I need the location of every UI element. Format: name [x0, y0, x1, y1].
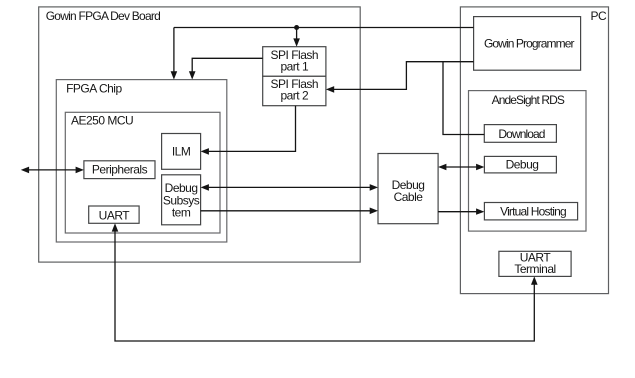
wire UART to UART Terminal (bidirectional)	[112, 223, 538, 341]
wire SPI Flash part 2 to ILM	[201, 106, 296, 155]
wire SPI Flash part 1 to FPGA Chip	[189, 58, 263, 79]
box Debug	[484, 156, 556, 173]
svg-text:UART: UART	[99, 209, 131, 223]
box FPGA Chip	[56, 80, 227, 242]
svg-text:tem: tem	[172, 205, 191, 219]
box SPI Flash part 1	[263, 47, 326, 77]
svg-text:Download: Download	[498, 127, 544, 141]
box Gowin Programmer	[474, 17, 581, 71]
wire Debug Subsystem to Debug Cable (bidirectional)	[201, 184, 378, 191]
svg-text:part 2: part 2	[280, 89, 309, 103]
box UART Terminal	[499, 250, 571, 276]
wire Debug Cable to Debug (bidirectional)	[438, 164, 484, 171]
box ILM	[162, 134, 201, 170]
box Peripherals	[84, 161, 155, 179]
svg-text:Cable: Cable	[394, 190, 424, 204]
svg-text:AE250 MCU: AE250 MCU	[71, 114, 133, 128]
box SPI Flash part 2	[263, 76, 326, 105]
box Download	[484, 125, 556, 143]
svg-text:Terminal: Terminal	[514, 262, 555, 276]
junction dot on top bus	[294, 25, 299, 30]
svg-text:Peripherals: Peripherals	[92, 163, 148, 177]
box AE250 MCU	[65, 112, 220, 233]
wire junction down into SPI Flash part 1	[293, 28, 300, 47]
wire Debug Subsystem to Debug Cable (lower)	[201, 208, 378, 215]
svg-text:Virtual Hosting: Virtual Hosting	[500, 205, 566, 219]
box Gowin FPGA Dev Board	[39, 7, 361, 262]
wire branch to Download	[443, 62, 484, 135]
wire external to Peripherals (bidirectional)	[21, 167, 84, 174]
wire Debug Cable to Virtual Hosting	[438, 208, 484, 214]
box AndeSight RDS	[469, 91, 587, 232]
wire Gowin Programmer to SPI Flash part 2	[326, 62, 474, 93]
svg-text:FPGA Chip: FPGA Chip	[66, 82, 122, 96]
svg-text:PC: PC	[591, 9, 608, 23]
box Virtual Hosting	[484, 203, 577, 220]
svg-text:part 1: part 1	[280, 60, 309, 74]
box Debug Cable	[378, 154, 438, 224]
svg-text:Debug: Debug	[506, 158, 539, 172]
svg-text:Gowin FPGA Dev Board: Gowin FPGA Dev Board	[46, 9, 160, 23]
box Debug Subsystem	[162, 175, 201, 225]
wire top bus from Gowin Programmer	[174, 27, 474, 29]
box PC	[460, 7, 608, 294]
box UART	[89, 206, 139, 223]
svg-text:AndeSight RDS: AndeSight RDS	[492, 93, 565, 107]
svg-text:Gowin Programmer: Gowin Programmer	[484, 37, 575, 51]
svg-text:ILM: ILM	[172, 145, 191, 159]
wire top bus down to FPGA Chip (left drop)	[171, 28, 178, 80]
